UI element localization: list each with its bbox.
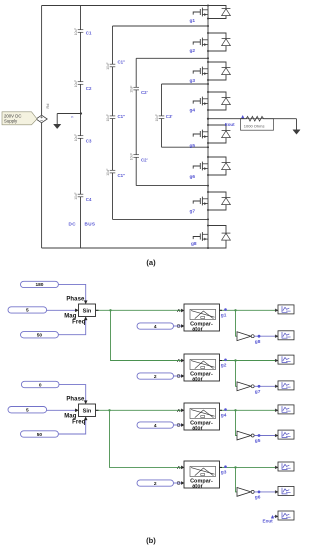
callout annotation 200V DC Supply: [2, 112, 37, 125]
port label Freq (Sin2): [72, 419, 86, 425]
capacitor C1 on DC bus: [74, 28, 92, 36]
wire: comparator out g1 to scope: [220, 309, 279, 311]
sine generator block Sin1: [79, 304, 96, 317]
svg-text:10uF: 10uF: [155, 114, 159, 121]
svg-text:Phase: Phase: [66, 396, 85, 402]
node label g3: [221, 465, 227, 475]
svg-text:Phase: Phase: [66, 296, 85, 302]
wire: 50 to Sin1 freq: [58, 317, 87, 335]
svg-text:10uF: 10uF: [74, 192, 78, 199]
logic NOT gate g8: [237, 332, 254, 341]
constant block 4 (to U1.B): [137, 323, 174, 330]
transistor IGBT Q7 (g7): [193, 197, 208, 206]
capacitor C1'' (bottom): [106, 168, 125, 178]
transistor IGBT Q8 (g8): [193, 232, 208, 241]
svg-text:10uF: 10uF: [130, 153, 134, 160]
wire: comparator out g2 to scope: [220, 359, 279, 361]
wire: 4 to U3.B: [174, 424, 182, 426]
wire: outer left rail lower segment: [41, 123, 43, 248]
wire: bottom DC rail horizontal: [42, 247, 226, 249]
svg-text:A: A: [177, 408, 181, 414]
svg-text:1000 Ohms: 1000 Ohms: [244, 123, 265, 128]
capacitor C2' (top): [130, 85, 148, 95]
node label g5: [255, 438, 261, 444]
diode D8 antiparallel with Q8: [207, 225, 230, 250]
svg-text:(a): (a): [146, 258, 156, 267]
comparator U3: [177, 403, 219, 432]
svg-text:Sin: Sin: [83, 308, 92, 314]
wire: g6 to scope: [254, 491, 278, 494]
constant block 180 (phase): [21, 281, 59, 288]
caption (a): [146, 258, 156, 267]
wire: switch bus vertical: [207, 6, 209, 249]
sine generator block Sin2: [79, 404, 96, 417]
diode D4 antiparallel with Q4: [207, 91, 230, 111]
capacitor C1'' (middle): [106, 114, 125, 122]
svg-text:C1'': C1'': [118, 114, 126, 119]
svg-text:g7: g7: [190, 209, 196, 215]
svg-text:ator: ator: [192, 377, 203, 383]
svg-text:C3': C3': [166, 114, 173, 119]
wire: 2 to U2.B: [174, 375, 182, 377]
svg-text:g5: g5: [190, 143, 196, 149]
diode D1 antiparallel with Q1: [207, 5, 230, 20]
DC source V1 diamond symbol 200V: [36, 115, 47, 123]
svg-text:10uF: 10uF: [106, 62, 110, 69]
svg-text:180: 180: [35, 282, 43, 288]
svg-text:B: B: [177, 423, 181, 429]
gate label g5: [190, 143, 196, 149]
gate label g6: [190, 174, 196, 180]
constant block 2 (to U2.B): [137, 373, 174, 380]
wire: load to ground: [274, 119, 297, 130]
svg-text:(b): (b): [146, 536, 156, 545]
comparator U4: [177, 461, 219, 490]
wire: rail of C2' caps: [136, 57, 209, 186]
svg-text:4: 4: [154, 423, 157, 429]
port label Freq (Sin1): [72, 319, 86, 325]
svg-text:DC: DC: [69, 222, 77, 227]
wire: 4 to U1.B: [174, 325, 182, 327]
svg-text:g6: g6: [255, 495, 261, 501]
svg-text:50: 50: [37, 432, 43, 438]
svg-text:B: B: [177, 374, 181, 380]
svg-text:10uF: 10uF: [74, 28, 78, 35]
svg-text:ator: ator: [192, 426, 203, 432]
port label Phase (Sin2): [66, 396, 85, 402]
svg-text:Freq: Freq: [72, 319, 86, 325]
gate label g2: [190, 48, 196, 54]
svg-text:g2: g2: [221, 363, 227, 369]
capacitor C2' (bottom): [130, 153, 148, 163]
svg-text:2: 2: [154, 374, 157, 380]
svg-text:C3: C3: [86, 139, 92, 144]
svg-text:200V DC: 200V DC: [4, 113, 21, 118]
capacitor C3 on DC bus: [74, 134, 92, 144]
gate label g4: [190, 108, 196, 114]
gate label g3: [190, 78, 196, 84]
node label g7: [255, 389, 261, 395]
scope block S2: [275, 331, 294, 340]
constant block 5 (magnitude): [8, 307, 47, 314]
svg-text:g3: g3: [190, 78, 196, 84]
label Eout (inverter output): [225, 115, 244, 127]
svg-text:g2: g2: [190, 48, 196, 54]
transistor IGBT Q4 (g4): [193, 97, 208, 106]
svg-text:Freq: Freq: [72, 419, 86, 425]
resistor load 1000 Ohms: [241, 116, 274, 130]
svg-text:10uF: 10uF: [106, 114, 110, 121]
wire: load branch from bus: [207, 118, 243, 120]
svg-text:Eout: Eout: [263, 518, 274, 523]
svg-text:C4: C4: [86, 197, 92, 202]
transistor IGBT Q1 (g1): [193, 8, 208, 17]
wire: branch down to inverter g6: [236, 467, 238, 492]
wire: 180 to Sin1 phase: [58, 284, 87, 303]
svg-text:B: B: [177, 324, 181, 330]
diode D5 antiparallel with Q5: [207, 124, 230, 144]
wire: g7 to scope: [254, 385, 278, 388]
wire: 5 to Sin1 mag: [47, 309, 79, 312]
constant block 4 (to U3.B): [137, 422, 174, 429]
wire: Sin2 out to U3.A: [96, 409, 182, 411]
diode D2 antiparallel with Q2: [207, 32, 230, 52]
svg-text:Sin: Sin: [83, 408, 92, 414]
scope block S8: [275, 487, 294, 496]
svg-text:g8: g8: [255, 339, 261, 345]
svg-text:10uF: 10uF: [130, 85, 134, 92]
scope block S6: [275, 430, 294, 439]
wire: g5 to scope: [254, 434, 278, 437]
wire: Sin1 out to U1.A: [96, 309, 182, 311]
caption (b): [146, 536, 156, 545]
scope block S9: [275, 511, 294, 520]
svg-text:C1'': C1'': [118, 173, 126, 178]
node label g4: [221, 408, 227, 418]
wire: DC bus rail vertical: [80, 6, 82, 249]
label Rd (rotated) next to source: [46, 104, 50, 109]
port label Mag (Sin1): [64, 313, 77, 319]
gate label g8: [191, 241, 197, 247]
diode D7 antiparallel with Q7: [207, 191, 230, 211]
scope block S4: [275, 381, 294, 390]
svg-text:g4: g4: [221, 413, 227, 419]
svg-text:C2': C2': [141, 90, 148, 95]
svg-text:Eout: Eout: [225, 122, 235, 127]
wire: branch down to inverter g8: [236, 310, 238, 336]
wire: 2 to U4.B: [174, 482, 182, 484]
node label g6: [255, 495, 261, 501]
logic NOT gate g5: [237, 431, 254, 440]
wire: 0 to Sin2 phase: [59, 385, 87, 404]
gate label g7: [190, 209, 196, 215]
svg-text:A: A: [177, 308, 181, 314]
wire: branch Sin2 to U4.A: [108, 409, 181, 467]
svg-text:C1: C1: [86, 31, 92, 36]
wire: comparator out g3 to scope: [220, 466, 279, 468]
svg-text:g1: g1: [190, 18, 196, 24]
diode D6 antiparallel with Q6: [207, 156, 230, 176]
scope block S3: [275, 355, 294, 364]
svg-text:4: 4: [154, 324, 157, 330]
port label Mag (Sin2): [64, 413, 77, 419]
scope block S7: [275, 462, 294, 471]
constant block 0 (phase): [21, 381, 59, 388]
transistor IGBT Q2 (g2): [193, 38, 208, 47]
wire: branch down to inverter g7: [236, 361, 238, 387]
svg-text:g4: g4: [190, 108, 196, 114]
svg-text:g5: g5: [255, 438, 261, 444]
node label g8: [255, 339, 261, 345]
node n label: [71, 115, 73, 119]
label DC BUS: [69, 222, 96, 227]
wire: g8 to scope: [254, 335, 278, 338]
svg-text:g3: g3: [221, 470, 227, 476]
scope block S5: [275, 405, 294, 414]
svg-text:50: 50: [37, 333, 43, 339]
wire: rail of C3' cap: [162, 83, 210, 148]
svg-text:10uF: 10uF: [74, 80, 78, 87]
svg-text:g6: g6: [190, 174, 196, 180]
logic NOT gate g6: [237, 488, 254, 497]
comparator U2: [177, 354, 219, 383]
svg-text:10uF: 10uF: [74, 134, 78, 141]
svg-text:g7: g7: [255, 389, 261, 395]
svg-text:10uF: 10uF: [106, 168, 110, 175]
constant block 50 (frequency): [21, 332, 59, 339]
wire: comparator out g4 to scope: [220, 409, 279, 411]
wire: branch Sin1 to U2.A: [109, 309, 181, 360]
svg-text:Rd: Rd: [46, 104, 50, 109]
svg-text:B: B: [177, 481, 181, 487]
wire: 5 to Sin2 mag: [47, 409, 79, 412]
constant block 5 (magnitude, second): [8, 407, 47, 414]
capacitor C2 on DC bus: [74, 80, 92, 91]
transistor IGBT Q5 (g5): [193, 130, 208, 139]
scope block S1: [275, 305, 294, 314]
node label g1: [221, 308, 227, 318]
svg-text:A: A: [177, 358, 181, 364]
svg-text:ator: ator: [192, 327, 203, 333]
capacitor C3': [155, 114, 173, 122]
svg-text:g1: g1: [221, 313, 227, 319]
port label Phase (Sin1): [66, 296, 85, 302]
ground symbol at load return: [293, 130, 300, 134]
svg-text:Supply: Supply: [4, 119, 18, 124]
svg-text:5: 5: [26, 408, 29, 414]
wire: branch down to inverter g5: [236, 410, 238, 435]
svg-text:C2': C2': [141, 158, 148, 163]
svg-text:2: 2: [154, 481, 157, 487]
diode D3 antiparallel with Q3: [207, 61, 230, 81]
svg-text:ator: ator: [192, 484, 203, 490]
wire: outer left rail upper segment: [41, 6, 43, 116]
constant block 2 (to U4.B): [137, 480, 174, 487]
comparator U1: [177, 304, 219, 333]
wire: neutral branch to ground: [57, 112, 82, 124]
wire: rail of C1'' caps: [113, 25, 210, 220]
node label g2: [221, 359, 227, 369]
svg-text:g8: g8: [191, 241, 197, 247]
svg-text:n: n: [71, 115, 73, 119]
svg-text:BUS: BUS: [85, 222, 96, 227]
ground symbol at neutral point n: [54, 124, 61, 128]
gate label g1: [190, 18, 196, 24]
logic NOT gate g7: [237, 382, 254, 391]
svg-text:A: A: [177, 465, 181, 471]
wire: top DC rail horizontal: [42, 5, 226, 7]
svg-text:C2: C2: [86, 86, 92, 91]
svg-text:5: 5: [26, 308, 29, 314]
output port Eout: [263, 515, 279, 523]
capacitor C4 on DC bus: [74, 192, 92, 202]
svg-text:C1'': C1'': [118, 60, 126, 65]
transistor IGBT Q6 (g6): [193, 162, 208, 171]
wire: 50 to Sin2 freq: [58, 417, 87, 434]
transistor IGBT Q3 (g3): [193, 67, 208, 76]
constant block 50 (frequency, second): [21, 431, 59, 438]
svg-text:0: 0: [39, 382, 42, 388]
capacitor C1'' (top): [106, 60, 125, 70]
